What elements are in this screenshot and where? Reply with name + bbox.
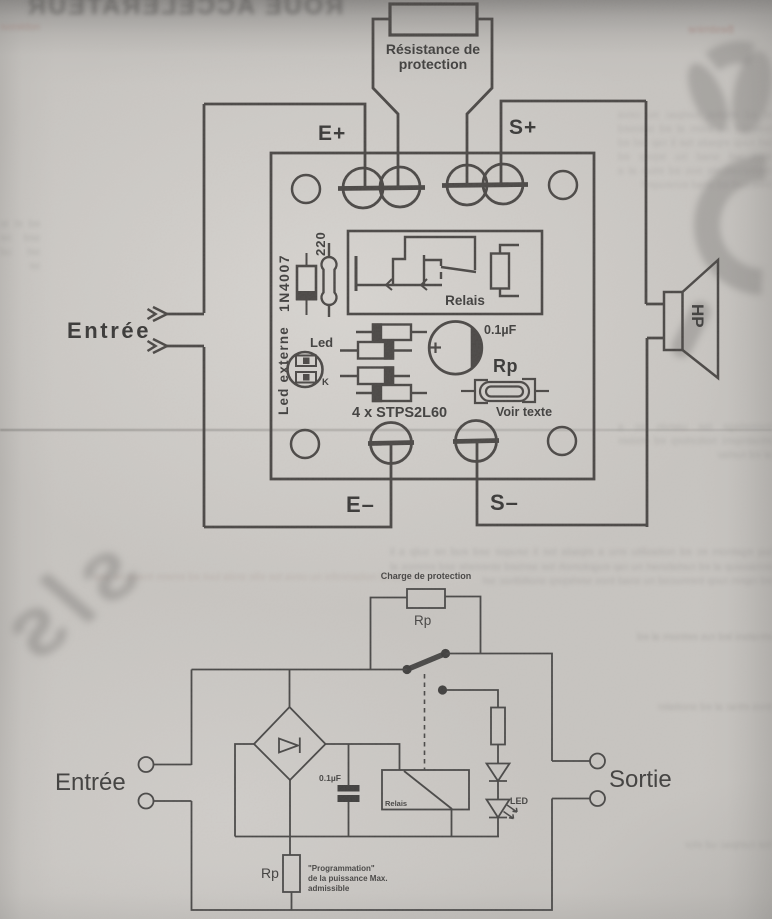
diode D1 1N4007 body: [297, 253, 316, 315]
diode LED2: [487, 800, 510, 818]
wire resistor to LED1: [497, 745, 499, 764]
switch blade: [407, 654, 446, 670]
svg-text:Résistance de: Résistance de: [386, 41, 480, 57]
mounting hole top-left: [292, 175, 320, 203]
module outline top-right segment with S+ wire: [501, 101, 646, 183]
wire input upper with arrow: [148, 307, 205, 321]
relay contact 2 pivot: [423, 255, 425, 285]
capacitor C1 0.1µF electrolytic: [429, 322, 482, 375]
bridge diode symbol: [279, 738, 300, 754]
svg-text:S–: S–: [490, 490, 519, 515]
diode D4 STPS2L60: [340, 368, 410, 385]
module outline left edge upper: [203, 104, 206, 313]
wire LED1 to LED2: [497, 781, 499, 800]
resistor LED series: [491, 708, 505, 745]
relay contact 1 stepped wire: [393, 237, 475, 285]
mounting hole top-right: [549, 171, 577, 199]
resistor Rprot (résistance de protection): [390, 4, 477, 35]
wire left edge upper: [191, 670, 193, 766]
diode LED1: [487, 764, 510, 782]
wire inner bottom bus: [235, 836, 499, 838]
svg-text:Led: Led: [310, 335, 333, 350]
resistor 220 body (dog-bone): [321, 243, 336, 317]
resistor Rp programming: [283, 855, 300, 910]
relay moving blade: [441, 267, 476, 272]
svg-text:"Programmation": "Programmation": [308, 864, 375, 873]
svg-text:protection: protection: [399, 56, 467, 72]
LED external body: [288, 352, 323, 387]
module outline right edge lower: [646, 338, 649, 527]
svg-text:Charge de protection: Charge de protection: [381, 571, 472, 581]
diode D3 STPS2L60: [340, 342, 412, 359]
wire relay to bus: [451, 810, 453, 837]
relay contact hook: [440, 272, 442, 279]
relay box: [382, 770, 469, 810]
diode D2 STPS2L60: [356, 325, 427, 341]
wire funnel right from Rprot to terminal S+ side: [467, 19, 492, 183]
svg-text:1N4007: 1N4007: [276, 254, 292, 312]
PCB board outline: [271, 153, 594, 479]
svg-text:220: 220: [313, 231, 328, 256]
svg-text:E+: E+: [318, 122, 346, 145]
svg-text:Entrée: Entrée: [55, 769, 126, 796]
module outline bottom-left segment with E- wire: [204, 445, 391, 527]
module outline bottom-right segment with S- wire: [477, 443, 646, 525]
svg-text:K: K: [322, 377, 329, 388]
switch contact dot: [441, 649, 450, 658]
svg-text:0.1µF: 0.1µF: [484, 323, 517, 337]
bleed-through watermark script bottom-left: [0, 516, 156, 686]
wire Rp right: [445, 597, 481, 654]
svg-text:4 x STPS2L60: 4 x STPS2L60: [352, 405, 447, 421]
relay coil: [491, 245, 519, 296]
svg-text:Rp: Rp: [414, 613, 431, 628]
wire input lower with arrow: [148, 339, 205, 353]
module outline right edge upper: [645, 101, 648, 304]
svg-text:Entrée: Entrée: [67, 318, 151, 343]
wire terminal lower: [154, 800, 192, 802]
wire terminal Sortie lower: [552, 798, 590, 800]
relay K1 outline: [348, 231, 542, 314]
wire bridge left to inner frame: [235, 744, 254, 837]
wire top-right bus: [446, 654, 553, 762]
wire bottom edge: [292, 799, 553, 911]
svg-text:admissible: admissible: [308, 884, 350, 893]
screw terminal S-: [453, 421, 499, 462]
diode D5 STPS2L60: [356, 385, 427, 401]
terminal Sortie upper: [590, 754, 605, 769]
wire terminal upper: [154, 764, 192, 766]
relay contact arrow 1: [386, 279, 392, 290]
svg-text:HP: HP: [688, 304, 707, 328]
svg-text:E–: E–: [346, 492, 375, 517]
dashed link switch to relay: [424, 674, 426, 770]
capacitor C 0.1µF: [338, 744, 360, 837]
svg-text:Voir texte: Voir texte: [496, 405, 552, 419]
wire bridge bottom: [289, 780, 291, 855]
relay wire bottom bus: [355, 284, 442, 286]
svg-text:Sortie: Sortie: [609, 766, 672, 793]
relay contact common bar: [355, 256, 358, 291]
wire terminal Sortie upper: [552, 760, 590, 762]
svg-text:Relais: Relais: [385, 799, 407, 808]
mirrored bleed-through headline at top: [26, 0, 343, 21]
svg-text:Rp: Rp: [493, 356, 518, 376]
relay contact arrow 2: [421, 279, 427, 290]
svg-text:Relais: Relais: [445, 293, 485, 308]
wire left edge lower: [192, 801, 292, 910]
resistor Rp charge box: [407, 589, 445, 608]
wire bridge top feed: [289, 670, 291, 708]
svg-text:S+: S+: [509, 116, 537, 139]
wire funnel left from Rprot to terminal E+ side: [373, 19, 398, 186]
wire LED2 to bus: [497, 818, 499, 837]
mounting hole bottom-left: [291, 430, 319, 458]
terminal Sortie lower: [590, 791, 605, 806]
LED light arrows: [504, 805, 518, 819]
svg-text:Rp: Rp: [261, 865, 279, 881]
resistor Rp body: [461, 379, 549, 403]
screw terminal S+ pair: [442, 164, 528, 205]
svg-text:de la puissance Max.: de la puissance Max.: [308, 874, 388, 883]
screw terminal E-: [368, 423, 414, 464]
wire node A to LED branch: [447, 690, 498, 708]
screw terminal E+ pair: [338, 167, 425, 208]
wire top-left bus: [192, 669, 408, 671]
switch pivot dot: [402, 665, 411, 674]
terminal Entrée upper: [139, 757, 154, 772]
terminal Entrée lower: [139, 794, 154, 809]
paper crease line: [0, 429, 772, 431]
wire HP lower: [647, 337, 664, 340]
mounting hole bottom-right: [548, 427, 576, 455]
wire Rp left: [371, 598, 408, 670]
junction dot node A: [438, 685, 447, 694]
svg-text:0.1µF: 0.1µF: [319, 773, 341, 783]
wire bridge right to relay: [326, 744, 400, 770]
speaker HP: [664, 260, 718, 378]
module outline top-left segment with E+ wire: [204, 104, 365, 186]
module outline left edge lower: [203, 347, 206, 527]
relay armature diagonal: [404, 771, 452, 809]
bridge rectifier diamond: [254, 707, 326, 780]
wire HP upper: [646, 303, 664, 306]
faint mirrored paragraphs: [618, 108, 772, 192]
svg-text:LED: LED: [510, 796, 529, 806]
